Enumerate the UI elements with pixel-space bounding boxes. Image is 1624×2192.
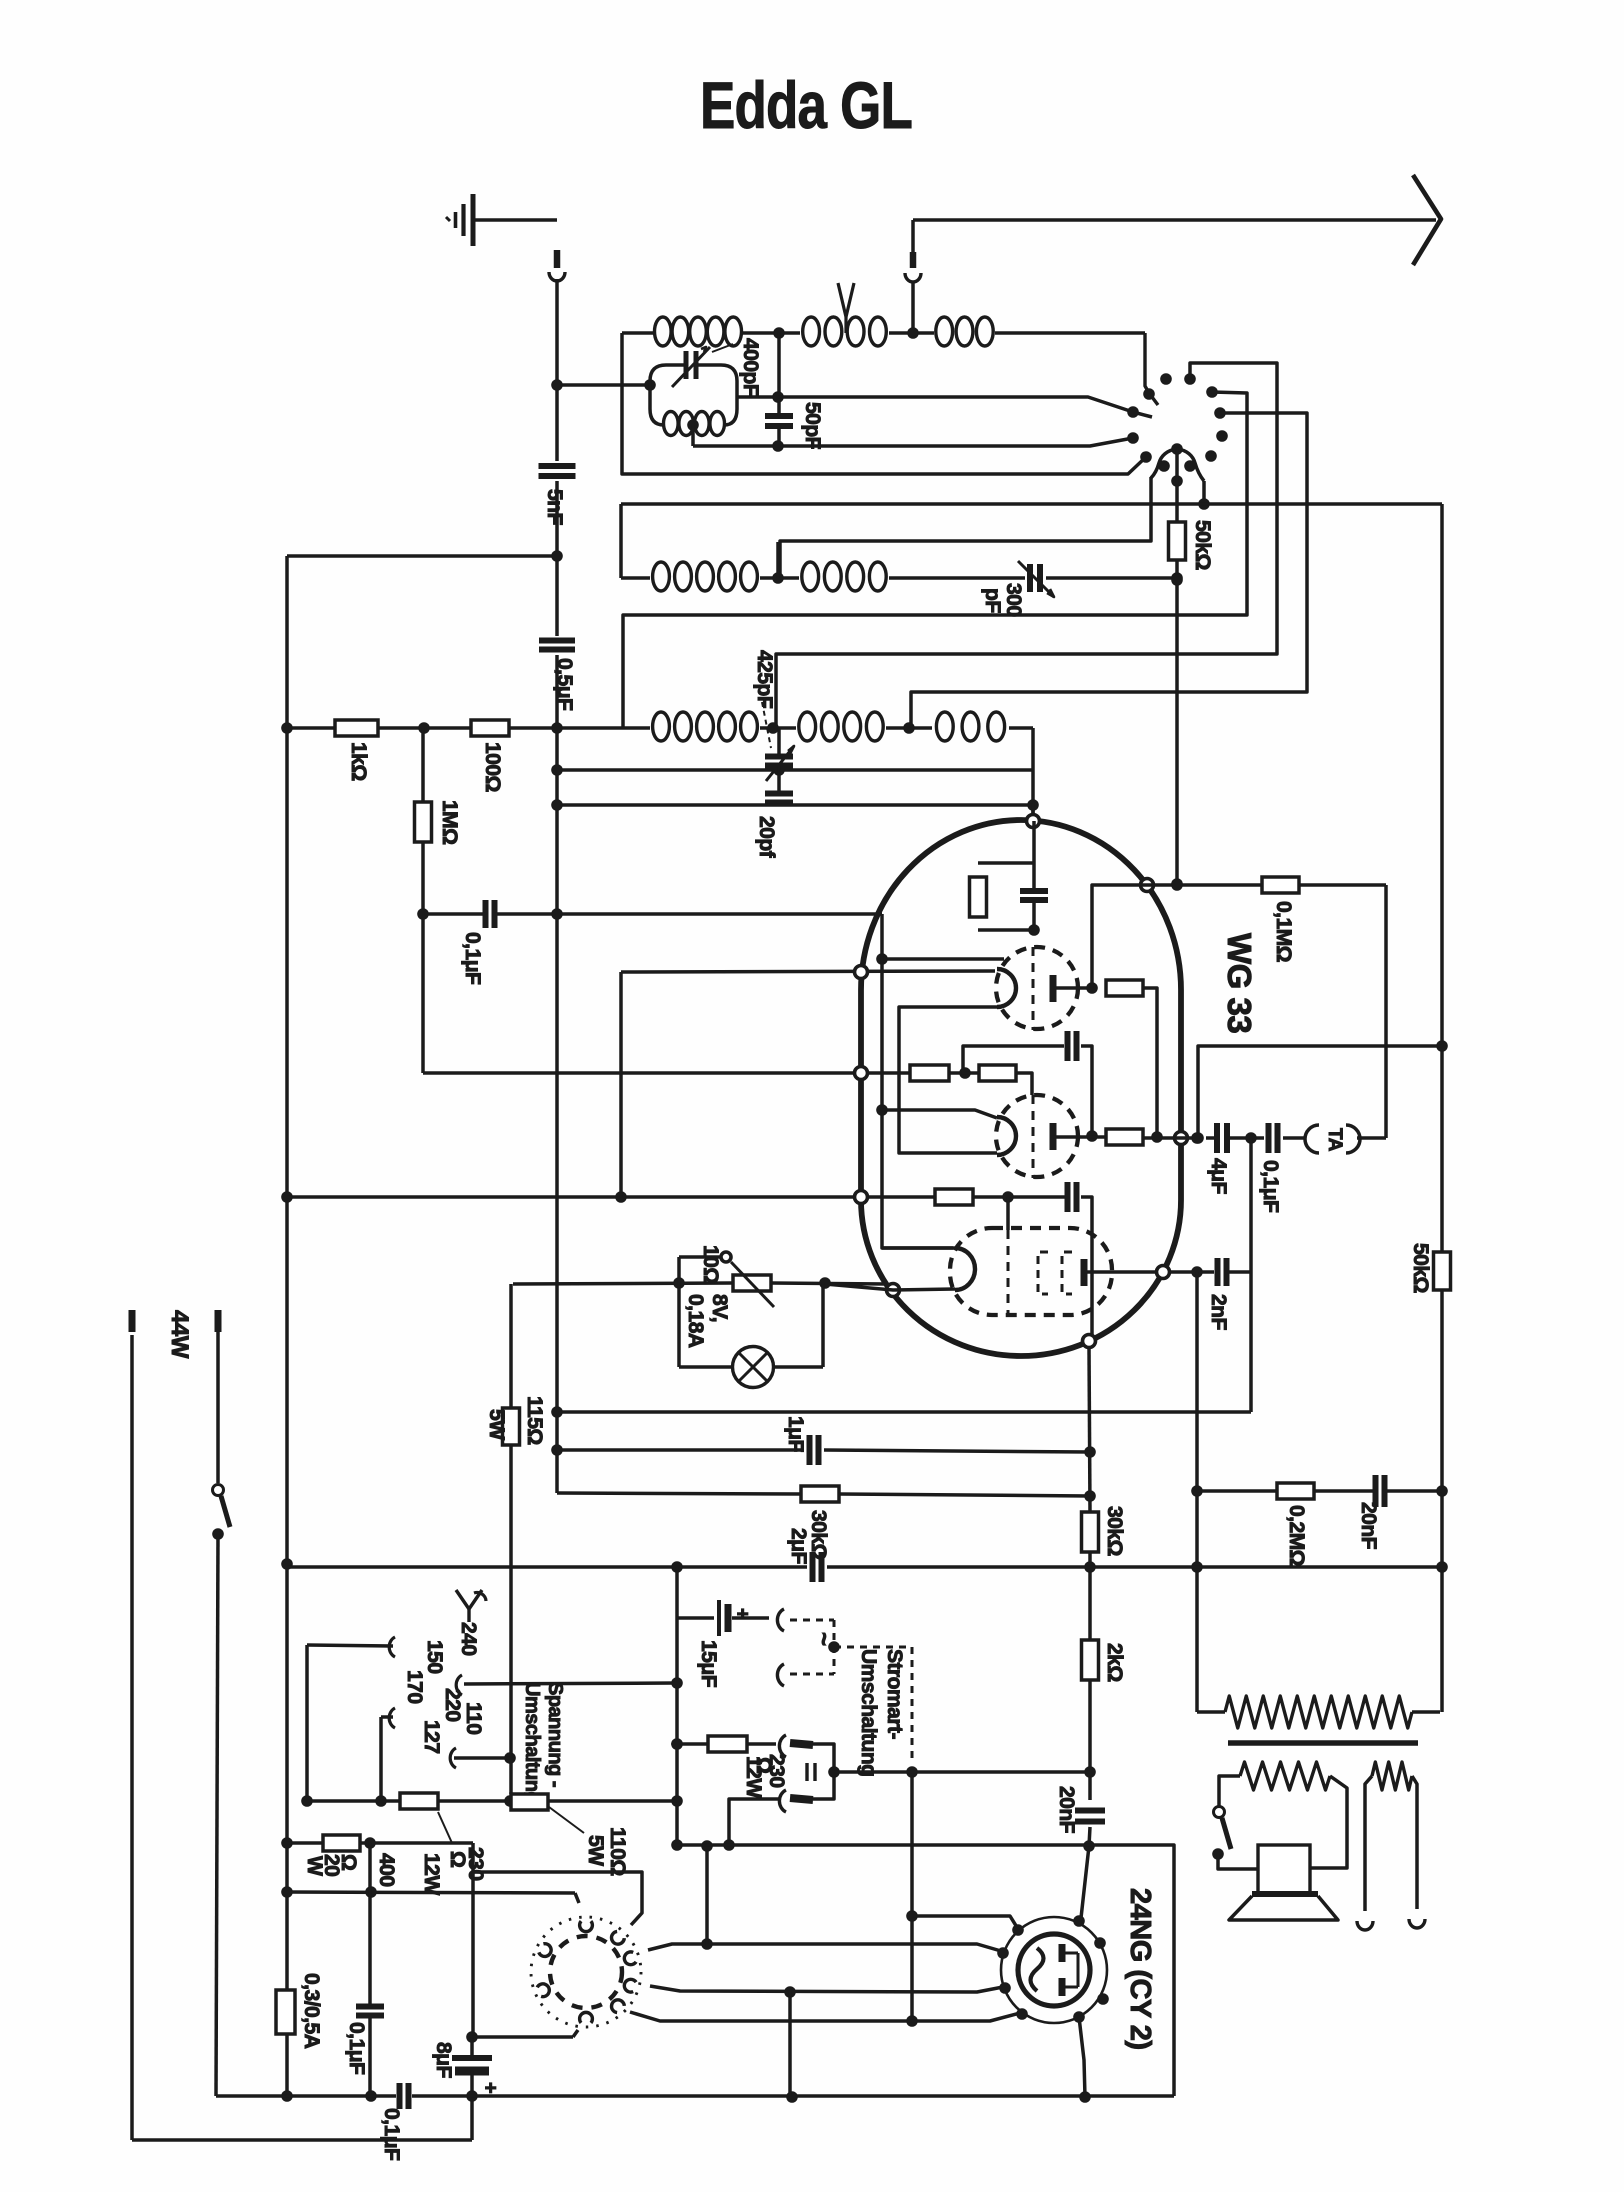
node L2 tap <box>772 572 784 584</box>
wire coil row y578 <box>621 576 650 580</box>
wire 150 lead <box>307 1645 393 1646</box>
fuse 0,3/0,5A <box>276 1990 295 2034</box>
svg-text:Edda GL: Edda GL <box>700 68 912 142</box>
tube 24NG inner <box>1018 1934 1090 2006</box>
wire 110 lead <box>464 1683 677 1684</box>
wire sec2 left <box>1365 1776 1372 1911</box>
resistor 400Ohm 20W sel <box>400 1793 438 1809</box>
tube 24NG outer <box>1001 1917 1107 2023</box>
wire x1090 2k-20n <box>1088 1680 1092 1800</box>
wire antenna line y220 <box>913 218 1436 222</box>
tube 24NG heater <box>1031 1948 1044 1991</box>
socket contact left-up <box>539 1944 551 1957</box>
wire grid1 RC stubs <box>978 861 1034 865</box>
switch rotor bumps <box>1151 449 1177 478</box>
svg-text:110Ω: 110Ω <box>606 1827 629 1876</box>
resistor anode2 <box>1106 1129 1143 1145</box>
envelope node cathode1 <box>855 966 868 979</box>
svg-text:240: 240 <box>457 1622 480 1656</box>
svg-text:5nF: 5nF <box>543 489 566 526</box>
wire 170 lead <box>381 1715 393 1719</box>
plug connector ground lead <box>554 250 561 268</box>
capacitor coupling t1-t2 <box>1065 1031 1071 1061</box>
svg-text:0,1MΩ: 0,1MΩ <box>1272 901 1295 962</box>
svg-text:Ω: Ω <box>446 1851 469 1867</box>
wire rotor centre <box>1175 449 1179 522</box>
resistor grid3 <box>935 1189 973 1205</box>
wire socket to heater1 <box>648 1944 1001 1951</box>
wire rail y805 <box>554 803 1033 807</box>
pentode g3 <box>1062 1252 1072 1294</box>
resistor grid2 a <box>910 1065 949 1081</box>
wire pin bottom-right down <box>1079 2017 1085 2097</box>
wire 0,2M line <box>1197 1489 1277 1493</box>
capacitor 15uF <box>677 1616 714 1620</box>
selector cup 220 <box>456 1675 462 1695</box>
speaker cone <box>1252 1891 1318 1897</box>
svg-text:425pF: 425pF <box>753 650 776 709</box>
wire rail y728 left <box>287 726 335 730</box>
capacitor 2uF <box>810 1552 816 1582</box>
wire sec2 right <box>1412 1776 1417 1909</box>
resistor 0,2MOhm <box>1277 1483 1314 1499</box>
pot wiper <box>721 1252 731 1262</box>
wire L3 right lead <box>1031 728 1035 829</box>
wire y1197 to pentode grid <box>287 1195 935 1199</box>
wire coupling down x1092 <box>1081 1197 1092 1335</box>
svg-text:30kΩ: 30kΩ <box>1103 1506 1126 1556</box>
envelope node grid3 <box>855 1191 868 1204</box>
arrow antenna <box>1413 175 1441 265</box>
pentode envelope <box>950 1228 1112 1315</box>
rect 24NG box <box>676 1845 1174 2096</box>
pentode grid <box>1007 1230 1010 1313</box>
wire x1251 <box>1249 1138 1253 1412</box>
resistor 115Ohm 5W <box>503 1408 520 1445</box>
wire grid1 stem <box>1032 821 1036 863</box>
envelope node top <box>1027 815 1040 828</box>
wire x790 <box>788 1992 792 2097</box>
wire output line <box>1206 1136 1217 1140</box>
wire rail y770 <box>554 768 1033 772</box>
wire x370 branch <box>368 1843 372 2007</box>
ground <box>471 194 476 246</box>
resistor 50kOhm right <box>1434 1252 1451 1290</box>
wire x511 heater chain <box>509 1284 513 1408</box>
transformer core <box>1228 1740 1418 1746</box>
node coil tap <box>773 327 785 339</box>
wire anode3 out <box>1169 1270 1214 1274</box>
jack field left <box>1357 1921 1373 1930</box>
triode2 anode <box>1050 1123 1057 1150</box>
svg-text:Stromart-: Stromart- <box>883 1649 906 1740</box>
wire anode1 up <box>1092 885 1386 988</box>
wire right bus x1442 <box>1440 504 1444 1252</box>
wire coil row y333 <box>622 331 654 335</box>
wire rail y504 <box>621 502 1442 506</box>
tube WG 33 envelope <box>861 820 1181 1356</box>
wire box tap down <box>691 425 695 446</box>
svg-text:100Ω: 100Ω <box>481 742 504 792</box>
wire heater bus x882 <box>882 914 953 1248</box>
jack AC upper <box>777 1609 784 1631</box>
triode1 cathode bottom lead <box>899 1007 997 1153</box>
resistor grid2 b <box>979 1065 1016 1081</box>
socket outer <box>531 1917 641 2027</box>
capacitor 0,1uF b <box>397 2083 403 2109</box>
capacitor 2nF <box>1215 1258 1221 1286</box>
wire pot line y1283 <box>513 1283 733 1284</box>
tube 24NG pins <box>1012 1924 1024 1936</box>
capacitor 400pF <box>684 351 689 379</box>
wire y1744 jack line <box>677 1742 708 1746</box>
wire x1090 30k-2k <box>1088 1552 1092 1640</box>
wire 20nF to pin <box>1081 1827 1090 1918</box>
svg-text:24NG (CY 2): 24NG (CY 2) <box>1124 1888 1156 2050</box>
svg-text:12W: 12W <box>420 1853 443 1895</box>
selector fork 240 <box>456 1590 482 1609</box>
resistor 1MOhm <box>415 802 432 842</box>
envelope node anode1 <box>1141 879 1154 892</box>
wire anode1 R out <box>1143 988 1157 1137</box>
label 425pF leader <box>762 702 771 748</box>
svg-text:12W: 12W <box>742 1756 765 1798</box>
wire y556 link <box>287 554 557 558</box>
resistor 1kOhm <box>335 720 378 736</box>
capacitor coupling pentode <box>1065 1182 1071 1212</box>
wire x1090 lower <box>1089 1347 1090 1512</box>
capacitor 425pF <box>765 754 793 760</box>
triode2 heater top lead <box>882 1110 997 1118</box>
svg-text:50kΩ: 50kΩ <box>1191 520 1214 570</box>
wire stromart dashed <box>790 1619 834 1622</box>
transformer secondary 1 <box>1240 1762 1330 1790</box>
wire y1073 to triode2 grid <box>423 1071 910 1075</box>
switch arm from coil row <box>1145 333 1158 405</box>
wire 425pF leads <box>777 728 781 756</box>
svg-text:4μF: 4μF <box>1207 1158 1230 1195</box>
triode2 grid <box>1032 1095 1035 1178</box>
wire y1893 to connector <box>287 1892 575 1893</box>
svg-text:5W: 5W <box>584 1835 607 1866</box>
coil L2b <box>802 562 819 591</box>
svg-text:Umschaltung: Umschaltung <box>857 1649 880 1777</box>
svg-text:127: 127 <box>420 1720 443 1754</box>
wire x677 upper <box>675 1567 679 1618</box>
node grid2 junction <box>959 1067 971 1079</box>
wire bottom y2140 <box>132 2138 472 2142</box>
wire ground to bus <box>473 218 557 222</box>
label 230 leader <box>438 1812 452 1843</box>
svg-text:10Ω: 10Ω <box>699 1245 722 1284</box>
svg-text:15μF: 15μF <box>697 1640 720 1688</box>
wire switch to x1307 <box>911 413 1307 728</box>
pentode heater <box>955 1248 975 1290</box>
lamp box <box>677 1283 681 1367</box>
wire anode2 out <box>1092 1135 1106 1139</box>
svg-text:1MΩ: 1MΩ <box>438 800 461 845</box>
wire 2nF to x1251 <box>1227 1270 1251 1274</box>
wire loop2 left <box>619 504 623 578</box>
wire x677 mid <box>675 1618 679 1845</box>
svg-text:400pF: 400pF <box>739 338 762 397</box>
pentode grid stem <box>1006 1197 1010 1230</box>
mains switch <box>215 1310 222 1332</box>
capacitor 0,1uF a <box>356 2004 384 2010</box>
resistor 50kOhm switch <box>1169 522 1186 560</box>
svg-text:0,5μF: 0,5μF <box>553 658 576 711</box>
svg-text:0,3/0,5A: 0,3/0,5A <box>300 1973 323 2049</box>
antenna symbol <box>838 283 854 317</box>
wire selector line y1801 <box>307 1799 400 1803</box>
svg-text:WG 33: WG 33 <box>1221 933 1258 1033</box>
capacitor 20pF <box>765 791 793 797</box>
triode1 anode <box>1050 975 1057 1002</box>
wire primary leads <box>1197 1710 1225 1714</box>
wire socket to heater2 <box>650 1986 1003 1992</box>
wire rail y1450 <box>557 1448 804 1452</box>
triode1 heater top lead <box>882 957 1004 961</box>
svg-text:Spannung -: Spannung - <box>544 1682 566 1787</box>
envelope node heater3 <box>887 1284 900 1297</box>
svg-text:0,1μF: 0,1μF <box>380 2108 403 2161</box>
capacitor 8uF <box>452 2055 492 2061</box>
selector cup 127 <box>450 1748 456 1768</box>
capacitor grid1 <box>1020 888 1048 894</box>
wire coupling cap t1 out <box>1081 1046 1092 1136</box>
triode1 cathode <box>997 969 1016 1007</box>
wire coupling cap t1 <box>963 1046 1064 1073</box>
socket contact top-right <box>612 1931 625 1944</box>
svg-text:150: 150 <box>423 1640 446 1674</box>
lamp 8V <box>733 1347 774 1388</box>
wire grid lead to tube top <box>1031 805 1035 821</box>
pentode anode <box>1081 1259 1088 1286</box>
wire sec1 left <box>1219 1776 1240 1806</box>
wire mains left <box>130 1335 134 2140</box>
wire y914 <box>423 912 485 916</box>
wire y2037 to socket <box>472 2035 573 2039</box>
resistor 30kOhm fb <box>1082 1512 1099 1552</box>
svg-text:+: + <box>731 1608 753 1620</box>
triode1 grid <box>1032 947 1035 1030</box>
wire x307 <box>305 1645 309 1801</box>
wire rotor right bump <box>1202 481 1206 504</box>
wire pin top-left <box>912 1916 1018 1929</box>
capacitor 0,5uF <box>539 638 575 644</box>
wire 127 lead <box>454 1756 510 1760</box>
wire y385 bus to box <box>557 383 650 387</box>
socket contact top <box>580 1921 593 1932</box>
svg-text:110: 110 <box>462 1702 485 1734</box>
wire coil row y728 <box>623 726 650 730</box>
svg-text:8V,: 8V, <box>708 1294 731 1322</box>
wire sec1 right <box>1310 1776 1347 1868</box>
capacitor 20nF fb <box>1373 1475 1379 1507</box>
socket inner <box>550 1936 622 2008</box>
label DC <box>805 1763 808 1781</box>
wire x472 B+ <box>470 2037 474 2058</box>
wire x707 <box>705 1846 709 1944</box>
capacitor 300pF <box>1027 564 1033 592</box>
jack field right <box>1409 1919 1425 1928</box>
coil L2a <box>653 562 670 591</box>
capacitor 0,1uF grid <box>483 900 489 928</box>
coil in tuned box <box>664 412 679 436</box>
resistor 20Ohm 20W <box>323 1835 360 1851</box>
pentode g2 <box>1038 1252 1048 1294</box>
svg-text:0,2MΩ: 0,2MΩ <box>1285 1505 1308 1566</box>
coil L3b <box>799 712 816 741</box>
envelope node anode3 <box>1157 1266 1170 1279</box>
svg-text:170: 170 <box>403 1670 426 1704</box>
wire x621 cathode tie <box>619 972 623 1197</box>
svg-text:0,1μF: 0,1μF <box>1259 1160 1282 1213</box>
wire y972 cathode lead <box>621 971 995 972</box>
svg-text:20nF: 20nF <box>1055 1786 1078 1834</box>
resistor 0,1MOhm <box>1262 877 1299 893</box>
resistor 2kOhm <box>1082 1640 1099 1680</box>
capacitor 50pF <box>765 413 793 419</box>
wire DC lower jack to rail <box>729 1799 779 1845</box>
svg-text:2nF: 2nF <box>1207 1294 1230 1331</box>
tuned box outline <box>650 365 737 425</box>
svg-text:2kΩ: 2kΩ <box>1103 1643 1126 1682</box>
svg-text:5W: 5W <box>485 1409 508 1440</box>
node box coil tap <box>687 419 699 431</box>
svg-text:2μF: 2μF <box>787 1528 810 1565</box>
svg-text:400: 400 <box>375 1853 398 1887</box>
svg-text:TA: TA <box>1324 1128 1345 1152</box>
svg-text:pF: pF <box>981 588 1004 613</box>
wire grid2 chain <box>949 1071 979 1075</box>
svg-text:300: 300 <box>1002 583 1025 617</box>
wire selector line y1843 <box>287 1841 323 1845</box>
wire grid3 feedback <box>1198 1046 1442 1138</box>
wire switch to x1277 <box>776 363 1277 728</box>
svg-text:115Ω: 115Ω <box>523 1396 546 1445</box>
wire socket bottom-right <box>630 2012 1020 2021</box>
wire 50pF leads <box>777 333 781 416</box>
svg-text:0,1μF: 0,1μF <box>345 2022 368 2075</box>
svg-text:W: W <box>303 1856 326 1876</box>
wire y1872 to connector <box>473 1872 642 1925</box>
socket contact bottom <box>580 2012 593 2023</box>
triode2 cathode <box>997 1117 1016 1155</box>
node L3 taps <box>767 722 779 734</box>
wire 1M branch <box>421 728 425 802</box>
selector cup 170 <box>389 1708 395 1728</box>
socket contact right-up <box>624 1952 636 1965</box>
pentode heater bottom lead <box>825 1284 955 1290</box>
envelope node output <box>1175 1132 1188 1145</box>
coil L3c <box>936 712 953 741</box>
svg-text:1kΩ: 1kΩ <box>347 742 370 781</box>
coil L1b <box>803 317 820 346</box>
wire loop1 left+bottom <box>622 333 1146 474</box>
wire 20pF leads <box>777 766 781 793</box>
svg-text:Umschaltung: Umschaltung <box>521 1682 543 1803</box>
capacitor 5nF <box>539 463 576 469</box>
envelope node coupling <box>1083 1335 1096 1348</box>
resistor 110Ohm 5W <box>511 1794 548 1810</box>
capacitor 4uF <box>1214 1123 1220 1153</box>
wire B+ x473 <box>471 1843 475 2037</box>
jack DC lower <box>779 1790 786 1812</box>
selector cup 150 <box>389 1637 395 1657</box>
wire x912 <box>910 1772 914 2021</box>
envelope node grid2 <box>855 1067 868 1080</box>
svg-text:50kΩ: 50kΩ <box>1409 1243 1432 1293</box>
jack TA <box>1305 1125 1319 1153</box>
wire feed A y397 <box>778 397 1152 417</box>
jack DC upper <box>779 1735 786 1757</box>
triode 1 envelope <box>996 947 1078 1029</box>
speaker magnet <box>1258 1845 1310 1894</box>
svg-text:20pf: 20pf <box>755 816 778 859</box>
coil L1a <box>655 317 672 346</box>
svg-text:1μF: 1μF <box>784 1416 807 1453</box>
transformer secondary 2 <box>1372 1762 1412 1790</box>
rheostat 10Ohm <box>733 1275 771 1291</box>
triode 2 envelope <box>996 1095 1078 1177</box>
capacitor 0,1uF TA <box>1266 1123 1272 1153</box>
svg-text:20nF: 20nF <box>1357 1502 1380 1550</box>
wire TA to x1386 <box>1357 1136 1386 1140</box>
capacitor 1uF <box>807 1435 813 1465</box>
wire left bus x287 <box>285 556 289 1990</box>
wire x1386 <box>1384 885 1388 1138</box>
coil L1c <box>936 317 953 346</box>
wire grid3 line <box>973 1195 1066 1199</box>
transformer primary <box>1225 1696 1412 1728</box>
svg-text:+: + <box>479 2082 501 2094</box>
resistor 30kOhm af <box>801 1486 839 1502</box>
wire main left bus x557 upper <box>555 279 559 461</box>
wire switch to x1248 <box>623 392 1247 728</box>
plug connector antenna lead <box>911 220 915 252</box>
socket contact bottom-right <box>612 2000 625 2013</box>
resistor 230Ohm 12W <box>708 1736 747 1752</box>
wire y1772 to 2k line <box>834 1770 1090 1774</box>
svg-text:50pF: 50pF <box>801 402 824 450</box>
wire L2 tap up <box>776 542 780 578</box>
wire feed B y446 <box>693 438 1133 446</box>
label 400pF leader <box>712 344 733 352</box>
svg-text:44W: 44W <box>166 1310 193 1359</box>
svg-text:220: 220 <box>441 1688 464 1722</box>
tube 24NG anodes <box>1059 1944 1066 1962</box>
wire ground rail y2096 <box>216 2094 396 2098</box>
wire DC jacks to dot <box>813 1744 834 1799</box>
resistor 100Ohm <box>471 720 509 736</box>
capacitor 20nF mains <box>1075 1808 1105 1814</box>
wire rail y1412 <box>557 1410 1251 1414</box>
wire rail y1567 <box>287 1565 807 1569</box>
socket contact left-down <box>537 1984 549 1997</box>
svg-text:0,1μF: 0,1μF <box>461 932 484 985</box>
svg-text:0,18A: 0,18A <box>684 1294 707 1348</box>
resistor anode1 <box>1106 980 1143 996</box>
wire x1177 down <box>1175 560 1179 884</box>
resistor grid1 leak <box>970 877 987 917</box>
wire rail y1493 <box>557 1493 801 1494</box>
switch contact dots <box>1127 406 1139 418</box>
coil L3a <box>653 712 670 741</box>
svg-text:8μF: 8μF <box>432 2042 455 2079</box>
socket contact right-down <box>624 1979 636 1992</box>
wire rotor left bump <box>780 477 1151 578</box>
